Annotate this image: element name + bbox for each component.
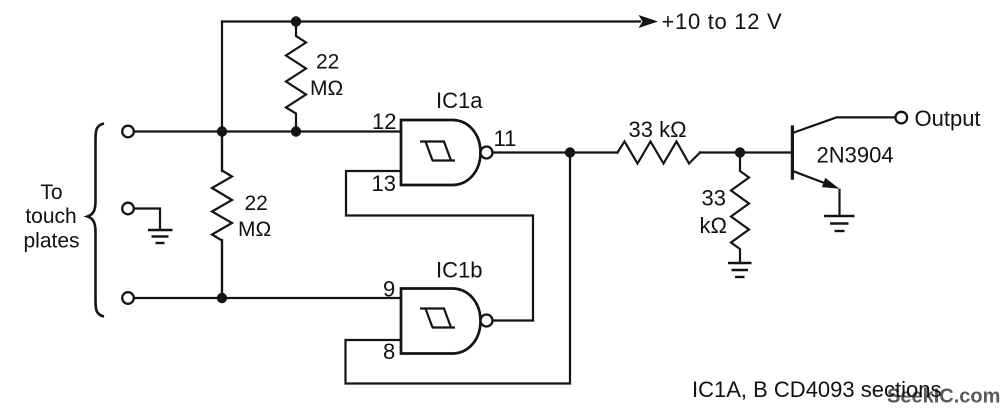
- terminal: top touch plate: [122, 126, 134, 138]
- wire: IC1b output stub: [492, 319, 534, 321]
- svg-text:33 kΩ: 33 kΩ: [629, 117, 687, 142]
- wire: left bus vertical x=222: [221, 22, 223, 172]
- wire: left bus lower segment: [221, 240, 223, 298]
- svg-text:IC1a: IC1a: [436, 88, 483, 113]
- node: rail/R1 junction: [291, 16, 301, 26]
- wire: IC1a output feedback down: [346, 153, 571, 384]
- svg-text:IC1A, B CD4093 sections: IC1A, B CD4093 sections: [692, 377, 941, 402]
- node: IC1a output junction: [565, 147, 575, 157]
- op-amp U2: IC1b NAND gate body: [401, 289, 481, 354]
- svg-text:33: 33: [702, 186, 726, 211]
- transistor Q1: emitter arrow: [822, 178, 840, 189]
- wire: middle terminal to ground: [135, 209, 161, 229]
- wire: IC1a output to resistor: [492, 151, 618, 153]
- svg-text:Output: Output: [915, 106, 981, 131]
- node: base divider junction: [735, 147, 745, 157]
- wire: bottom touch plate line: [135, 297, 402, 299]
- svg-text:MΩ: MΩ: [310, 77, 343, 100]
- node: top line / left bus: [217, 126, 227, 136]
- terminal: bottom touch plate: [122, 292, 134, 304]
- ground: middle terminal: [148, 230, 173, 243]
- svg-text:13: 13: [372, 171, 396, 196]
- op-amp wire: IC1a pin13 feedback: [346, 171, 533, 321]
- transistor Q1: collector lead: [794, 117, 896, 132]
- node: bottom line / left bus: [217, 293, 227, 303]
- svg-text:MΩ: MΩ: [238, 218, 271, 241]
- ground: emitter: [824, 216, 855, 231]
- svg-text:22: 22: [316, 51, 339, 74]
- svg-text:To: To: [40, 181, 62, 204]
- svg-text:11: 11: [494, 126, 517, 151]
- op-amp U1: IC1a schmitt symbol: [420, 142, 455, 161]
- wire: emitter to ground: [838, 189, 840, 215]
- ground: under R4: [728, 263, 752, 277]
- terminal: output: [896, 112, 908, 124]
- svg-text:+10 to 12 V: +10 to 12 V: [662, 9, 783, 34]
- terminal: middle (ground) plate: [122, 203, 134, 215]
- svg-text:8: 8: [383, 339, 395, 364]
- node: top line / R1: [291, 126, 301, 136]
- resistor R1 22 MΩ (x=296 vertical): [286, 22, 306, 132]
- transistor Q1: emitter lead: [794, 171, 832, 185]
- resistor R2 22 MΩ (x=222 vertical): [212, 132, 232, 299]
- brace: touch plates: [88, 124, 105, 317]
- op-amp U1: IC1a NAND gate body: [401, 120, 481, 185]
- svg-text:IC1b: IC1b: [436, 258, 482, 283]
- op-amp U1: IC1a output bubble: [481, 147, 493, 159]
- svg-text:22: 22: [245, 192, 268, 215]
- svg-text:2N3904: 2N3904: [817, 143, 894, 168]
- resistor R4 33 kΩ vertical: [731, 153, 749, 263]
- svg-text:plates: plates: [23, 230, 79, 253]
- op-amp U2: IC1b schmitt symbol: [420, 309, 455, 328]
- resistor R3 33 kΩ horizontal: [618, 142, 701, 164]
- op-amp U2: IC1b output bubble: [481, 315, 493, 327]
- wire: V+ rail: [222, 20, 640, 22]
- svg-text:kΩ: kΩ: [700, 213, 727, 238]
- wire: resistor to transistor base: [700, 151, 791, 153]
- svg-text:12: 12: [372, 109, 396, 134]
- svg-text:touch: touch: [25, 205, 76, 228]
- power arrow: [639, 15, 659, 28]
- wire: top touch plate line: [135, 130, 402, 132]
- svg-text:9: 9: [383, 277, 395, 302]
- transistor Q1 2N3904: base bar: [791, 125, 794, 179]
